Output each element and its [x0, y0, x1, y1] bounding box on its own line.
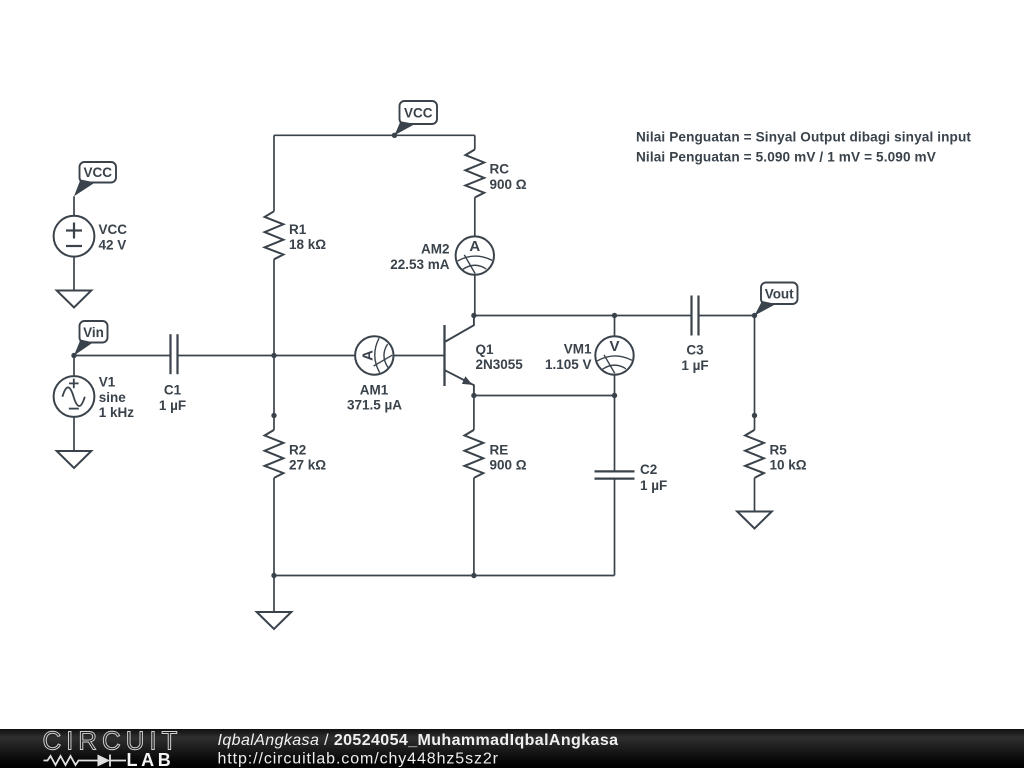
- svg-text:27 kΩ: 27 kΩ: [289, 458, 326, 473]
- wire: [73, 196, 75, 216]
- wire (top rail to R1): [273, 135, 275, 211]
- svg-text:R2: R2: [289, 442, 306, 457]
- ammeter AM1: [347, 336, 402, 412]
- svg-text:AM2: AM2: [421, 242, 450, 257]
- node (VM1 top junction): [612, 313, 617, 318]
- svg-text:VCC: VCC: [99, 222, 128, 237]
- wire (R1 to base node): [273, 259, 275, 355]
- CircuitLab logo resistor-diode glyph: [44, 755, 127, 767]
- svg-text:10 kΩ: 10 kΩ: [770, 458, 807, 473]
- svg-text:http://circuitlab.com/chy448hz: http://circuitlab.com/chy448hz5sz2r: [218, 751, 499, 768]
- svg-text:RC: RC: [490, 162, 510, 177]
- svg-text:371.5 µA: 371.5 µA: [347, 398, 402, 413]
- wire (bottom rail to ground): [273, 576, 275, 613]
- resistor R2 27k: [265, 416, 327, 478]
- node (bottom rail left junction): [271, 573, 276, 578]
- node Vin junction dot: [71, 353, 76, 358]
- svg-text:Vin: Vin: [83, 325, 104, 340]
- svg-text:VM1: VM1: [564, 342, 592, 357]
- svg-text:R5: R5: [770, 442, 788, 457]
- svg-text:1 µF: 1 µF: [159, 398, 186, 413]
- wire (top rail): [274, 134, 475, 136]
- transistor Q1 2N3055: [445, 316, 524, 396]
- svg-text:900 Ω: 900 Ω: [490, 177, 527, 192]
- footer url line: [218, 751, 499, 768]
- capacitor C1 1uF: [159, 334, 186, 413]
- resistor RC 900: [465, 150, 526, 198]
- voltage source V1 sine: [54, 356, 135, 421]
- voltmeter VM1: [545, 336, 634, 374]
- svg-text:C3: C3: [686, 342, 704, 357]
- wire (Vin to C1): [74, 355, 170, 357]
- ground (bottom rail): [257, 612, 292, 629]
- svg-text:2N3055: 2N3055: [476, 357, 524, 372]
- footer bar: [0, 729, 1024, 768]
- capacitor C3 1uF: [681, 296, 708, 373]
- wire (bottom rail): [274, 575, 615, 577]
- svg-text:LAB: LAB: [127, 750, 175, 768]
- wire (base node down to R2 pin): [273, 356, 275, 416]
- svg-text:1 µF: 1 µF: [640, 478, 667, 493]
- node (bottom rail RE junction): [471, 573, 476, 578]
- wire (RC top lead): [474, 135, 476, 149]
- svg-text:18 kΩ: 18 kΩ: [289, 237, 326, 252]
- wire (emitter row): [474, 395, 615, 397]
- svg-text:sine: sine: [99, 390, 127, 405]
- svg-text:VCC: VCC: [404, 106, 433, 121]
- wire (VM1 top lead): [614, 316, 616, 337]
- svg-text:C1: C1: [164, 382, 182, 397]
- CircuitLab logo CIRCUIT wordmark: [43, 726, 183, 756]
- wire (VM1 bottom lead): [614, 375, 616, 396]
- annotation text line 1: [636, 129, 971, 144]
- svg-text:IqbalAngkasa / 20524054_Muhamm: IqbalAngkasa / 20524054_MuhammadIqbalAng…: [218, 732, 619, 749]
- svg-text:1 kHz: 1 kHz: [99, 405, 135, 420]
- wire: [73, 257, 75, 291]
- node (R5 pin dot): [752, 413, 757, 418]
- svg-text:Nilai Penguatan = Sinyal Outpu: Nilai Penguatan = Sinyal Output dibagi s…: [636, 129, 971, 144]
- capacitor C2 1uF: [595, 396, 668, 576]
- node (Vout junction dot): [752, 313, 757, 318]
- svg-text:1.105 V: 1.105 V: [545, 357, 592, 372]
- wire (R2 to bottom rail): [273, 478, 275, 576]
- node (R1/R2/C1 junction): [271, 353, 276, 358]
- wire (collector row left of C3): [474, 315, 692, 317]
- wire (AM1 to base): [394, 355, 445, 357]
- wire (R5 to ground): [754, 478, 756, 512]
- ammeter AM2: [390, 236, 494, 274]
- svg-text:22.53 mA: 22.53 mA: [390, 257, 450, 272]
- wire: [73, 417, 75, 451]
- svg-text:V: V: [609, 338, 619, 355]
- svg-text:Nilai Penguatan = 5.090 mV / 1: Nilai Penguatan = 5.090 mV / 1 mV = 5.09…: [636, 149, 936, 164]
- node (emitter junction): [471, 393, 476, 398]
- node (R2 pin dot): [271, 413, 276, 418]
- svg-text:AM1: AM1: [360, 382, 389, 397]
- wire (RC to AM2): [474, 198, 476, 237]
- svg-text:V1: V1: [99, 374, 116, 389]
- wire (Vout down to R5): [754, 316, 756, 416]
- svg-text:A: A: [469, 238, 480, 255]
- svg-text:C2: C2: [640, 462, 657, 477]
- voltage source VCC 42V: [54, 216, 128, 257]
- svg-text:A: A: [359, 350, 376, 361]
- wire (base node to AM1): [274, 355, 355, 357]
- ground (below R5): [737, 512, 772, 529]
- svg-text:Q1: Q1: [476, 342, 495, 357]
- resistor R5 10k: [745, 416, 807, 478]
- node label Vout: [755, 283, 798, 316]
- CircuitLab logo LAB wordmark: [127, 750, 175, 768]
- annotation text line 2: [636, 149, 936, 164]
- wire (RE to bottom rail): [473, 478, 475, 576]
- resistor R1 18k: [265, 211, 327, 259]
- power label VCC (top): [395, 101, 438, 135]
- svg-text:1 µF: 1 µF: [681, 358, 708, 373]
- ground (below VCC source): [57, 291, 92, 308]
- svg-text:RE: RE: [490, 442, 509, 457]
- svg-text:900 Ω: 900 Ω: [490, 458, 527, 473]
- power label VCC (left): [74, 162, 116, 196]
- wire (AM2 to collector node): [474, 275, 476, 316]
- resistor RE 900: [465, 396, 527, 478]
- node label Vin: [74, 321, 108, 356]
- svg-text:VCC: VCC: [83, 165, 112, 180]
- svg-text:Vout: Vout: [765, 286, 794, 301]
- footer author line: [218, 732, 619, 749]
- node (VCC rail junction dot): [392, 133, 397, 138]
- wire (C1 to base node): [178, 355, 274, 357]
- svg-text:42 V: 42 V: [99, 238, 127, 253]
- node (collector junction): [471, 313, 476, 318]
- node (VM1 bottom junction): [612, 393, 617, 398]
- ground (below V1): [57, 451, 92, 468]
- svg-text:R1: R1: [289, 222, 307, 237]
- wire (C3 to Vout node): [699, 315, 755, 317]
